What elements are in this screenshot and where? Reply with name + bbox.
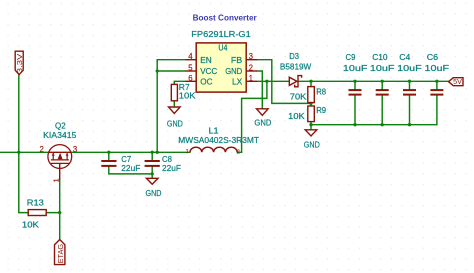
svg-text:2: 2 bbox=[40, 145, 44, 154]
svg-text:GND: GND bbox=[225, 66, 242, 76]
svg-text:C4: C4 bbox=[399, 52, 410, 62]
svg-text:MWSA0402S-3R3MT: MWSA0402S-3R3MT bbox=[178, 135, 259, 145]
svg-text:L1: L1 bbox=[209, 125, 219, 135]
svg-text:GND: GND bbox=[146, 188, 162, 198]
svg-text:FP6291LR-G1: FP6291LR-G1 bbox=[191, 29, 251, 39]
svg-text:U4: U4 bbox=[218, 43, 227, 53]
svg-text:C10: C10 bbox=[372, 52, 388, 62]
svg-text:4: 4 bbox=[188, 52, 193, 61]
svg-text:10K: 10K bbox=[22, 220, 39, 230]
svg-text:10uF: 10uF bbox=[343, 63, 368, 73]
svg-text:R13: R13 bbox=[27, 198, 44, 208]
svg-text:C9: C9 bbox=[346, 52, 356, 62]
svg-text:B5819W: B5819W bbox=[280, 62, 311, 72]
svg-text:2: 2 bbox=[249, 64, 253, 73]
svg-text:GND: GND bbox=[167, 118, 183, 128]
svg-text:22uF: 22uF bbox=[162, 163, 181, 173]
svg-text:FB: FB bbox=[231, 55, 243, 65]
svg-text:GND: GND bbox=[304, 139, 320, 149]
svg-text:5: 5 bbox=[188, 64, 193, 73]
svg-text:OC: OC bbox=[200, 77, 212, 87]
svg-text:R9: R9 bbox=[316, 105, 326, 115]
svg-text:1: 1 bbox=[249, 74, 253, 83]
svg-text:KIA3415: KIA3415 bbox=[43, 130, 77, 140]
svg-text:EN: EN bbox=[200, 55, 212, 65]
svg-text:LX: LX bbox=[232, 77, 243, 87]
svg-text:GND: GND bbox=[254, 118, 271, 128]
svg-text:6: 6 bbox=[188, 74, 192, 83]
svg-text:70K: 70K bbox=[290, 91, 307, 101]
svg-text:10uF: 10uF bbox=[370, 63, 395, 73]
svg-text:10uF: 10uF bbox=[397, 63, 422, 73]
svg-text:3: 3 bbox=[249, 52, 253, 61]
svg-text:Q2: Q2 bbox=[55, 120, 66, 130]
svg-text:5V: 5V bbox=[453, 78, 462, 86]
svg-text:10K: 10K bbox=[288, 111, 305, 121]
svg-text:Boost Converter: Boost Converter bbox=[193, 12, 258, 22]
svg-text:ETAG: ETAG bbox=[58, 244, 65, 264]
svg-text:C6: C6 bbox=[427, 52, 439, 62]
svg-text:D3: D3 bbox=[289, 51, 299, 61]
svg-text:10K: 10K bbox=[179, 91, 196, 101]
svg-text:10uF: 10uF bbox=[425, 63, 450, 73]
svg-text:22uF: 22uF bbox=[121, 163, 140, 173]
svg-text:3: 3 bbox=[73, 145, 77, 154]
svg-text:2: 2 bbox=[237, 150, 240, 156]
svg-text:VCC: VCC bbox=[200, 66, 217, 76]
svg-text:1: 1 bbox=[186, 149, 189, 155]
svg-text:1: 1 bbox=[52, 178, 61, 182]
svg-text:R8: R8 bbox=[316, 86, 326, 96]
svg-text:3.3V: 3.3V bbox=[17, 53, 24, 73]
